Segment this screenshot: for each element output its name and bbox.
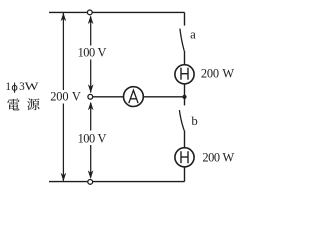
100V bottom arrowhead down	[88, 170, 94, 179]
100V bottom dimension line upper segment	[90, 103, 92, 131]
ammeter A1 circle	[123, 87, 143, 107]
node middle (open terminal)	[88, 94, 93, 99]
svg-text:100 V: 100 V	[78, 46, 107, 60]
wire lamp a to junction	[184, 84, 186, 97]
label kanji DEN (electric)	[7, 98, 19, 110]
wire bottom horizontal	[49, 181, 185, 183]
200V arrowhead down	[61, 173, 67, 182]
svg-text:200 W: 200 W	[201, 66, 234, 80]
wire top horizontal	[49, 11, 185, 13]
100V bottom arrowhead up at node	[88, 102, 94, 111]
200V dimension arrow line lower segment	[62, 104, 64, 182]
200V arrowhead up	[61, 13, 67, 22]
100V top arrowhead down at node	[88, 84, 94, 93]
100V bottom dimension line lower segment	[90, 145, 92, 178]
200V dimension arrow line upper segment	[62, 13, 64, 90]
wire switch b to lamp b	[184, 131, 186, 148]
node top (open terminal)	[87, 10, 92, 15]
100V top dimension line lower segment	[90, 60, 92, 93]
svg-text:b: b	[191, 114, 197, 128]
svg-text:1: 1	[5, 81, 11, 93]
junction dot	[182, 95, 186, 99]
svg-text:200 V: 200 V	[50, 90, 81, 104]
wire right vertical above switch a	[184, 12, 186, 25]
lamp U-b circle	[175, 148, 194, 167]
100V top arrowhead up	[88, 15, 94, 24]
lamp U-a circle	[175, 65, 194, 84]
svg-text:200 W: 200 W	[202, 151, 234, 165]
wire junction to switch b	[184, 97, 186, 106]
ammeter A1 letter A	[129, 90, 138, 103]
svg-text:a: a	[190, 28, 196, 42]
lamp U-a H glyph	[181, 68, 188, 80]
switch b blade	[179, 110, 184, 130]
wire middle: node to ammeter	[90, 96, 123, 98]
switch a blade	[180, 29, 184, 51]
svg-text:100 V: 100 V	[78, 131, 107, 145]
label kanji GEN (source)	[27, 98, 39, 110]
label phi symbol	[12, 83, 17, 93]
node bottom (open terminal)	[88, 180, 93, 185]
lamp U-b H glyph	[181, 151, 188, 163]
100V top dimension line upper segment	[90, 17, 92, 46]
svg-text:W: W	[25, 81, 39, 93]
wire lamp b to bottom	[184, 167, 186, 182]
wire switch a to lamp a	[184, 51, 186, 65]
wire middle: ammeter to junction	[143, 96, 184, 98]
